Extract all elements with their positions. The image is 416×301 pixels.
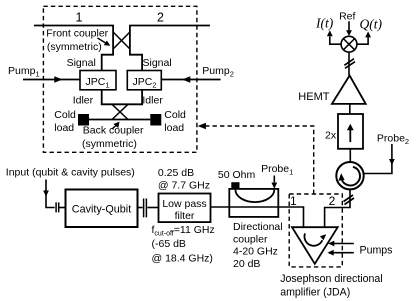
svg-text:Pump2: Pump2: [202, 65, 234, 79]
wire Q arm: [357, 38, 368, 45]
svg-text:amplifier (JDA): amplifier (JDA): [280, 287, 350, 299]
wire 2x to circulator: [349, 149, 351, 162]
svg-text:Probe2: Probe2: [377, 133, 409, 147]
wire circulator to JDA port 2: [325, 189, 350, 227]
svg-text:coupler: coupler: [233, 233, 268, 245]
wire break slashes: [344, 59, 355, 69]
cold load right termination: [150, 114, 161, 126]
svg-text:(symmetric): (symmetric): [82, 138, 137, 150]
svg-text:1: 1: [290, 194, 297, 208]
wire pump arrow upper: [334, 243, 354, 245]
svg-text:Idler: Idler: [73, 94, 94, 106]
svg-text:load: load: [164, 122, 184, 134]
svg-text:Ref: Ref: [339, 10, 355, 22]
capacitor input: [56, 202, 59, 212]
svg-text:Signal: Signal: [143, 57, 172, 69]
wire HEMT to 2x: [349, 104, 351, 114]
svg-text:HEMT: HEMT: [298, 91, 329, 103]
svg-text:fcut-off=11 GHz: fcut-off=11 GHz: [152, 224, 215, 238]
wire pump 2: [161, 79, 220, 81]
mixer: [341, 36, 357, 52]
dashed enclosure JPC module: [43, 6, 197, 152]
svg-text:Directional: Directional: [233, 221, 283, 233]
wire cavity to cap2: [138, 207, 143, 209]
svg-text:20 dB: 20 dB: [233, 258, 260, 270]
wire port 2 top: [129, 25, 210, 27]
wire I arm: [330, 37, 341, 45]
svg-text:load: load: [54, 122, 74, 134]
svg-text:0.25 dB: 0.25 dB: [158, 167, 194, 179]
svg-text:Cold: Cold: [54, 109, 76, 121]
dashed feedback wire to JDA: [198, 123, 206, 129]
circulator: [336, 162, 363, 189]
directional coupler arc: [235, 190, 274, 202]
wire cap to cavity: [60, 207, 66, 209]
wire mixer to HEMT: [348, 52, 350, 75]
svg-text:Pumps: Pumps: [360, 244, 393, 256]
svg-text:(-65 dB: (-65 dB: [152, 238, 186, 250]
low pass filter box: [159, 194, 211, 223]
svg-text:Idler: Idler: [142, 94, 163, 106]
svg-text:4-20 GHz: 4-20 GHz: [233, 246, 278, 258]
JDA circulation arrow: [304, 233, 322, 245]
wire input with arrow: [46, 180, 55, 208]
wire ref arrow: [348, 21, 350, 30]
svg-text:@ 18.4 GHz): @ 18.4 GHz): [152, 253, 213, 265]
wire cold load line: [89, 119, 150, 121]
JPC1 box: [80, 71, 116, 90]
svg-text:Probe1: Probe1: [261, 163, 293, 177]
HEMT amplifier: [332, 76, 366, 104]
wire LPF to JDA port 1: [211, 207, 304, 227]
svg-text:@ 7.7 GHz: @ 7.7 GHz: [158, 180, 210, 192]
svg-text:Josephson directional: Josephson directional: [280, 273, 382, 285]
JPC2 box: [127, 71, 161, 90]
svg-text:I(t): I(t): [315, 15, 334, 30]
wire probe1 arrow: [273, 176, 275, 183]
svg-text:2: 2: [157, 11, 164, 25]
svg-text:Pump1: Pump1: [8, 65, 40, 79]
2x amplifier box: [338, 114, 363, 149]
cavity-qubit box: [66, 190, 138, 228]
svg-text:Low pass: Low pass: [162, 198, 206, 210]
wire cap2 to LPF: [147, 207, 158, 209]
arrow in 2x box: [349, 128, 351, 142]
svg-text:JPC2: JPC2: [133, 76, 157, 90]
wire break slashes at JDA: [344, 195, 355, 205]
svg-text:(symmetric): (symmetric): [47, 41, 102, 53]
wire pump arrow lower: [333, 252, 353, 254]
svg-text:2x: 2x: [325, 129, 337, 141]
svg-text:2: 2: [329, 194, 336, 208]
cold load left termination: [78, 114, 89, 126]
svg-text:Signal: Signal: [67, 57, 96, 69]
svg-text:JPC1: JPC1: [86, 76, 110, 90]
label arrow to back coupler: [112, 126, 116, 129]
svg-text:1: 1: [76, 11, 83, 25]
wire probe2 into circulator: [364, 144, 392, 174]
front coupler crossing: [113, 32, 130, 49]
50 Ohm termination: [231, 182, 239, 189]
front coupler left arm: [102, 26, 113, 71]
capacitor output: [144, 199, 147, 218]
JDA amplifier triangle: [292, 227, 338, 264]
wire pump 1: [23, 79, 80, 81]
svg-text:filter: filter: [175, 210, 195, 222]
svg-text:Cavity-Qubit: Cavity-Qubit: [72, 204, 131, 216]
svg-text:Q(t): Q(t): [360, 16, 383, 31]
label arrow to front coupler: [98, 38, 107, 44]
wire port 1 top: [34, 25, 114, 27]
back coupler left arm: [102, 90, 142, 105]
front coupler right arm: [130, 26, 142, 71]
svg-text:50 Ohm: 50 Ohm: [218, 169, 256, 181]
svg-text:Input (qubit & cavity pulses): Input (qubit & cavity pulses): [6, 166, 135, 178]
directional coupler box: [229, 189, 278, 217]
svg-text:Front coupler: Front coupler: [46, 27, 108, 39]
dashed enclosure JDA: [289, 194, 342, 267]
back coupler crossing: [112, 104, 128, 119]
svg-text:Back coupler: Back coupler: [83, 125, 144, 137]
svg-text:Cold: Cold: [164, 109, 186, 121]
